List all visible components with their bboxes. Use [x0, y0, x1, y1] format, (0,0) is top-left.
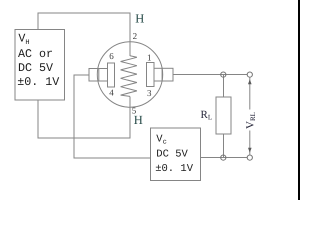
wire left electrode to Vc box	[74, 75, 151, 158]
left electrode plug	[89, 69, 108, 82]
svg-text:DC 5V: DC 5V	[18, 61, 53, 75]
wire Vc box to VRL bottom terminal	[201, 157, 250, 159]
wire RL branch top segment	[222, 75, 224, 97]
svg-text:1: 1	[147, 52, 152, 62]
svg-text:3: 3	[147, 88, 152, 98]
arrowhead down at VRL bottom	[248, 148, 252, 153]
left electrode plate	[108, 63, 115, 87]
arrowhead up at VRL top	[248, 79, 252, 84]
wire right electrode to VRL top terminal	[173, 74, 250, 76]
wire VH box bottom to heater pin 5	[38, 97, 130, 139]
svg-text:6: 6	[109, 51, 114, 61]
heater resistor zigzag	[121, 56, 137, 97]
VRL measure line lower segment	[249, 131, 251, 155]
gas sensor envelope circle	[97, 42, 162, 107]
right electrode plate	[146, 63, 154, 87]
terminal circle VRL top	[247, 72, 252, 77]
power supply box Vc	[151, 128, 201, 180]
junction circle bottom of RL branch	[221, 155, 226, 160]
svg-text:DC 5V: DC 5V	[156, 148, 188, 160]
right electrode plug	[154, 68, 173, 81]
VRL measure line upper segment	[249, 78, 251, 110]
svg-text:4: 4	[109, 88, 114, 98]
junction circle top of RL branch	[221, 72, 226, 77]
svg-text:H: H	[135, 11, 144, 25]
svg-text:AC or: AC or	[18, 47, 53, 61]
svg-text:2: 2	[133, 31, 138, 41]
power supply box VH	[15, 30, 65, 101]
border bar right edge	[298, 0, 300, 200]
svg-text:±0. 1V: ±0. 1V	[155, 163, 194, 175]
svg-text:±0. 1V: ±0. 1V	[17, 75, 59, 89]
svg-text:H: H	[134, 113, 143, 127]
wire RL branch bottom segment	[222, 134, 224, 158]
wire VH box top to heater pin 2	[38, 13, 130, 56]
resistor RL	[216, 97, 231, 134]
terminal circle VRL bottom	[247, 155, 252, 160]
